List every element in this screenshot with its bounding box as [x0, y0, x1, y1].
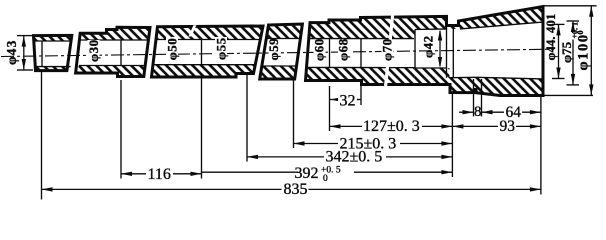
- label phi68: [338, 40, 350, 61]
- phi44.401 bottom tick: [552, 78, 565, 80]
- svg-text:127±0. 3: 127±0. 3: [363, 118, 420, 135]
- phi75 bottom tick: [567, 84, 580, 86]
- taper inner lines: [460, 22, 543, 29]
- dim line phi44.401: [558, 24, 560, 78]
- ext at x452.4 (common right for 127/215/342/392, left for 8 and 93): [451, 94, 453, 177]
- top allowance band S5: [309, 17, 415, 39]
- finished left face: [41, 41, 43, 67]
- svg-text:φ42: φ42: [421, 35, 436, 58]
- extension lines below part: [42, 72, 541, 200]
- bottom extension line phi100: [544, 94, 593, 96]
- svg-text:93: 93: [500, 118, 516, 135]
- finished step line phi50/phi55: [201, 40, 203, 65]
- phi42 vertical dimension with arrows: [438, 30, 442, 69]
- ext at x293.5 (215 left): [293, 80, 295, 148]
- svg-text:835: 835: [284, 181, 308, 198]
- svg-text:φ60: φ60: [311, 38, 326, 61]
- svg-text:32: 32: [340, 93, 356, 110]
- phi43 dimension at left: [4, 36, 33, 70]
- ext at x41.5 (835 left): [41, 72, 43, 200]
- forging step S4 (phi59 zone): [260, 24, 303, 79]
- svg-text:φ70: φ70: [380, 38, 395, 61]
- svg-text:φ100: φ100: [576, 33, 592, 70]
- svg-text:φ43: φ43: [4, 39, 19, 65]
- dim line phi75: [572, 21, 574, 27]
- forging step S3 (phi50 / phi55 zone): [152, 26, 264, 77]
- dimension row 116 / 392+0.5: [121, 165, 452, 184]
- finished step line phi60/phi68: [329, 39, 331, 68]
- svg-text:φ55: φ55: [213, 37, 228, 60]
- dimension row 32: [330, 92, 361, 110]
- svg-text:φ68: φ68: [336, 38, 351, 61]
- ext at x121 (116 left): [120, 80, 122, 179]
- dimension row 835: [42, 181, 541, 198]
- taper bottom band: [476, 77, 543, 95]
- svg-text:0: 0: [323, 174, 328, 184]
- label phi60: [314, 41, 326, 61]
- forging step S1 (phi43 end): [33, 35, 72, 70]
- svg-text:φ59: φ59: [266, 38, 281, 61]
- svg-text:392: 392: [295, 165, 319, 182]
- svg-text:116: 116: [148, 166, 171, 183]
- label phi50: [166, 37, 178, 60]
- label phi55: [215, 37, 227, 60]
- ext at x201.5 (116 right / 392 left): [201, 78, 203, 179]
- ext at x329.5 (32 and 127 left): [329, 86, 331, 131]
- dimension row 215±0.3: [294, 135, 453, 152]
- collar face line: [452, 26, 454, 78]
- ext at x540.9 (64/93/835 right): [540, 97, 542, 195]
- label phi70: [382, 40, 394, 61]
- bottom allowance band S5: [306, 67, 416, 84]
- svg-text:φ75: φ75: [559, 41, 574, 63]
- ext at x361 (32 right): [360, 86, 362, 106]
- phi42 neck box: [415, 26, 476, 78]
- ext at x247 (342 left): [246, 75, 248, 162]
- finished step line phi68/phi70: [360, 39, 362, 68]
- phi44.401 top tick: [552, 23, 565, 25]
- dim line phi100: [590, 6, 592, 96]
- dimension row 8 / 64: [459, 104, 541, 121]
- label phi59: [269, 41, 281, 61]
- svg-text:342±0. 5: 342±0. 5: [326, 149, 383, 166]
- centerline: [1, 49, 554, 56]
- label phi30: [88, 40, 100, 62]
- dimension row 127±0.3 / 93: [330, 118, 541, 135]
- top extension line phi100: [544, 5, 597, 7]
- svg-text:φ50: φ50: [164, 38, 179, 61]
- svg-text:φ30: φ30: [86, 39, 101, 62]
- phi75 top tick: [567, 20, 580, 22]
- taper top band: [447, 7, 544, 29]
- right end diameter dimensions: [544, 6, 597, 96]
- ext at x481.5 (8/64 boundary): [481, 79, 483, 117]
- labels on shaft: [86, 35, 436, 62]
- break gap in S5 band: [384, 15, 394, 86]
- svg-text:φ44. 401: φ44. 401: [544, 14, 558, 61]
- dimension row 342±0.5: [247, 149, 452, 166]
- break notch in S3 top band: [188, 25, 196, 36]
- forging step S2 (phi30 / phi50 zone): [76, 27, 150, 76]
- forging step S5 (phi60/phi68/phi70 + phi42 neck + collar + taper shank): [188, 7, 543, 96]
- finished step line phi30/phi50: [120, 40, 122, 66]
- svg-text:8: 8: [474, 104, 482, 120]
- ext at x473.5 (8 dim): [473, 79, 475, 117]
